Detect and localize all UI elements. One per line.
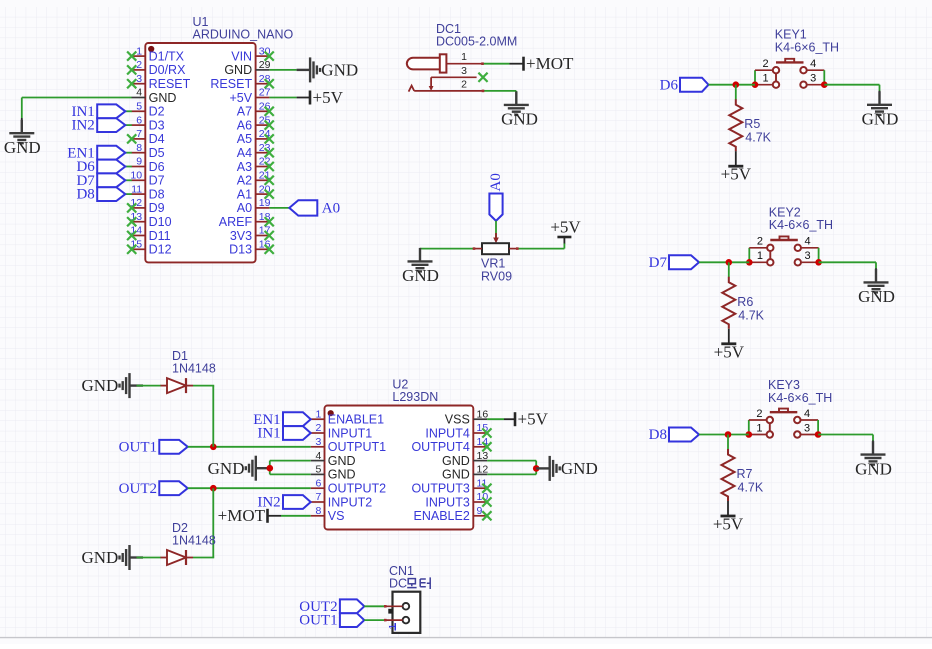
svg-text:OUTPUT4: OUTPUT4 — [411, 440, 469, 454]
svg-text:D1/TX: D1/TX — [149, 49, 185, 63]
wire A0 to VR1 wiper — [495, 221, 497, 239]
svg-text:1: 1 — [756, 422, 762, 434]
svg-text:ENABLE1: ENABLE1 — [328, 413, 384, 427]
wire U1 pin4 to GND — [22, 98, 132, 119]
ground GND (D2) — [81, 545, 143, 570]
svg-text:VS: VS — [328, 509, 345, 523]
svg-text:A2: A2 — [237, 174, 252, 188]
diode D2 1N4148 — [161, 521, 216, 565]
svg-text:OUTPUT3: OUTPUT3 — [411, 482, 469, 496]
U2 L293DN pin 12 GND — [442, 464, 488, 482]
port OUT1 (U2 pin3) — [119, 439, 188, 455]
IC U1 ARDUINO_NANO body — [145, 15, 293, 262]
svg-text:R6: R6 — [737, 295, 753, 309]
wire KEY3 to GND — [818, 435, 873, 442]
port D6 (U1 pin 9) — [76, 159, 131, 175]
port IN2 (U2 pin 7) — [257, 495, 310, 511]
svg-text:12: 12 — [477, 464, 489, 476]
svg-text:D6: D6 — [660, 77, 679, 93]
junction node OUT1 — [210, 444, 217, 451]
svg-text:GND: GND — [321, 61, 358, 80]
ground GND (KEY2) — [858, 268, 895, 306]
svg-text:K4-6×6_TH: K4-6×6_TH — [769, 218, 833, 232]
port D8 (KEY3) — [649, 427, 699, 443]
svg-text:A3: A3 — [237, 160, 252, 174]
U1 ARDUINO_NANO pin 6 D3 — [132, 114, 165, 132]
port D7 (KEY2) — [649, 255, 699, 271]
svg-text:4.7K: 4.7K — [738, 481, 764, 495]
U1 ARDUINO_NANO pin 1 D1/TX — [127, 45, 185, 63]
U1 ARDUINO_NANO pin 24 A5 — [237, 128, 274, 146]
ground GND (KEY3) — [855, 441, 892, 479]
wire U2 pin16 to +5V — [487, 418, 504, 420]
svg-text:OUT1: OUT1 — [299, 613, 337, 629]
svg-text:1: 1 — [387, 624, 399, 630]
svg-text:1: 1 — [461, 51, 467, 63]
port IN2 (U1 pin 6) — [71, 118, 131, 134]
svg-text:27: 27 — [259, 87, 271, 99]
wire D2 cathode — [193, 557, 214, 559]
U1 ARDUINO_NANO pin 13 D10 — [127, 211, 171, 229]
svg-text:D13: D13 — [229, 243, 252, 257]
svg-text:VR1: VR1 — [481, 257, 505, 271]
svg-text:GND: GND — [501, 110, 538, 129]
U2 L293DN pin 10 INPUT3 — [425, 491, 491, 509]
ground GND (KEY1) — [862, 91, 899, 129]
svg-text:OUTPUT2: OUTPUT2 — [328, 482, 386, 496]
junction node U2 GND left — [267, 465, 274, 472]
svg-text:13: 13 — [477, 450, 489, 462]
wire GND to D2 anode — [137, 557, 162, 559]
connector CN1 DC motor — [387, 564, 420, 633]
svg-text:RESET: RESET — [210, 77, 252, 91]
svg-text:3V3: 3V3 — [230, 229, 252, 243]
power flag +5V (U1 pin27) — [297, 88, 344, 107]
wire OUT2 to CN1 — [364, 605, 385, 607]
U2 L293DN pin 1 ENABLE1 — [311, 408, 384, 426]
svg-text:D9: D9 — [149, 201, 165, 215]
sheet border bottom — [0, 637, 932, 639]
svg-text:GND: GND — [208, 459, 245, 478]
svg-text:A1: A1 — [237, 187, 252, 201]
svg-text:D11: D11 — [149, 229, 171, 243]
svg-text:A0: A0 — [322, 201, 340, 217]
resistor R5 4.7K — [721, 85, 772, 184]
U2 L293DN pin 9 ENABLE2 — [414, 505, 492, 523]
wire DC1 pin1 to +MOT — [483, 63, 510, 65]
junction node D6/R — [733, 81, 740, 88]
junction node U2 GND right — [533, 465, 540, 472]
svg-text:K4-6×6_TH: K4-6×6_TH — [768, 391, 832, 405]
svg-text:8: 8 — [136, 142, 142, 154]
svg-text:VIN: VIN — [231, 49, 252, 63]
port EN1 (U2 pin 1) — [253, 412, 311, 428]
svg-text:11: 11 — [131, 183, 142, 195]
U2 L293DN pin 8 VS — [311, 505, 345, 523]
svg-text:GND: GND — [862, 110, 899, 129]
port IN1 (U1 pin 5) — [71, 104, 131, 120]
svg-text:INPUT1: INPUT1 — [328, 426, 373, 440]
svg-text:D8: D8 — [149, 187, 165, 201]
wire D8 to KEY3 — [699, 434, 749, 436]
wire D6 to KEY1 — [709, 84, 756, 86]
wire VR1 right to +5V — [517, 243, 564, 249]
U2 L293DN pin 4 GND — [311, 450, 356, 468]
wire U1 pin27 to +5V — [269, 97, 296, 99]
svg-text:GND: GND — [561, 459, 598, 478]
U1 ARDUINO_NANO pin 10 D7 — [130, 170, 164, 188]
power flag +MOT (DC1) — [510, 54, 574, 73]
svg-text:+MOT: +MOT — [218, 506, 266, 525]
svg-text:OUT1: OUT1 — [119, 439, 157, 455]
U1 ARDUINO_NANO pin 7 D4 — [127, 128, 165, 146]
svg-text:INPUT2: INPUT2 — [328, 495, 373, 509]
wire KEY2 to GND — [819, 262, 876, 269]
svg-text:4: 4 — [315, 450, 321, 462]
DC1 pin 2 — [414, 78, 483, 91]
port OUT2 (CN1) — [299, 599, 364, 615]
ground GND (DC1) — [501, 91, 538, 128]
CN1 value DC motor (Korean) — [389, 577, 430, 591]
U1 ARDUINO_NANO pin 30 VIN — [231, 45, 274, 63]
junction node D7/R — [726, 259, 733, 266]
svg-text:RV09: RV09 — [481, 270, 512, 284]
svg-text:29: 29 — [259, 59, 271, 71]
svg-text:GND: GND — [858, 287, 895, 306]
ground GND (U2 pins 13,12) — [536, 456, 598, 481]
wire D7 to KEY2 — [699, 261, 749, 263]
svg-text:OUTPUT1: OUTPUT1 — [328, 440, 386, 454]
resistor R7 4.7K — [713, 435, 764, 534]
svg-text:D4: D4 — [149, 132, 165, 146]
svg-text:2: 2 — [757, 236, 763, 248]
svg-text:GND: GND — [81, 548, 118, 567]
svg-text:L293DN: L293DN — [392, 390, 438, 404]
wire GND to D1 anode — [137, 385, 162, 387]
svg-text:GND: GND — [149, 91, 177, 105]
svg-text:GND: GND — [81, 376, 118, 395]
svg-text:K4-6×6_TH: K4-6×6_TH — [775, 40, 839, 54]
U1 ARDUINO_NANO pin 23 A4 — [237, 142, 274, 160]
svg-text:D12: D12 — [149, 243, 172, 257]
U2 L293DN pin 16 VSS — [445, 408, 489, 426]
U1 ARDUINO_NANO pin 16 D13 — [229, 239, 274, 257]
svg-text:D8: D8 — [649, 427, 667, 443]
port A0 (U1 pin19) — [289, 200, 340, 216]
svg-text:19: 19 — [259, 197, 271, 209]
svg-text:INPUT4: INPUT4 — [425, 426, 470, 440]
svg-text:GND: GND — [328, 454, 356, 468]
svg-text:+MOT: +MOT — [526, 54, 574, 73]
svg-text:+5V: +5V — [550, 218, 581, 237]
svg-text:+5V: +5V — [518, 410, 549, 429]
U1 ARDUINO_NANO pin 27 +5V — [230, 87, 271, 105]
U1 ARDUINO_NANO pin 20 A1 — [237, 183, 274, 201]
U2 L293DN pin 15 INPUT4 — [425, 422, 491, 440]
connector DC1 DC005-2.0MM — [407, 22, 517, 92]
svg-text:OUT2: OUT2 — [119, 481, 157, 497]
svg-text:4: 4 — [804, 408, 810, 420]
svg-text:GND: GND — [442, 454, 470, 468]
svg-text:A4: A4 — [237, 146, 252, 160]
pushbutton KEY3 K4-6x6_TH — [746, 378, 833, 438]
wire U2 pins 13,12 to GND — [487, 461, 540, 475]
wire +MOT to U2 pin8 — [281, 515, 311, 517]
wire VR1 left to GND — [420, 249, 474, 253]
wire GND to U2 pins 4,5 — [270, 461, 311, 475]
wire OUT1 to CN1 — [364, 619, 385, 621]
diode D1 1N4148 — [161, 349, 216, 393]
U1 ARDUINO_NANO pin 5 D2 — [132, 101, 165, 119]
svg-text:4.7K: 4.7K — [745, 131, 771, 145]
potentiometer VR1 RV09 — [474, 233, 517, 284]
svg-text:1N4148: 1N4148 — [172, 533, 216, 547]
svg-text:D7: D7 — [649, 255, 668, 271]
svg-text:5: 5 — [136, 101, 142, 113]
port OUT1 (CN1) — [299, 613, 364, 629]
svg-text:10: 10 — [130, 170, 142, 182]
svg-text:1: 1 — [763, 73, 769, 85]
U1 ARDUINO_NANO pin 26 A7 — [237, 101, 274, 119]
svg-text:DC005-2.0MM: DC005-2.0MM — [436, 35, 517, 49]
power flag +5V (U2 VSS) — [504, 410, 549, 429]
port D8 (U1 pin 11) — [76, 187, 131, 203]
svg-text:1: 1 — [315, 408, 321, 420]
U1 ARDUINO_NANO pin 22 A3 — [237, 156, 274, 174]
svg-text:+5V: +5V — [714, 342, 745, 361]
ground GND (U2 pins 4,5) — [208, 456, 270, 481]
wire KEY1 to GND — [824, 85, 879, 92]
DC1 pin 3 (no connect) — [431, 65, 488, 82]
svg-text:3: 3 — [315, 436, 321, 448]
wire U1 pin29 to GND — [269, 69, 296, 71]
svg-text:3: 3 — [804, 422, 810, 434]
svg-text:D10: D10 — [149, 215, 172, 229]
svg-text:2: 2 — [756, 408, 762, 420]
svg-text:+5V: +5V — [721, 165, 752, 184]
svg-text:ENABLE2: ENABLE2 — [414, 509, 470, 523]
wire OUT1 to D1 — [212, 386, 214, 447]
U2 L293DN pin 11 OUTPUT3 — [411, 477, 491, 495]
svg-text:4: 4 — [810, 58, 816, 70]
svg-text:GND: GND — [442, 468, 470, 482]
port OUT2 (U2 pin6) — [119, 481, 188, 497]
svg-text:+5V: +5V — [313, 88, 344, 107]
U1 ARDUINO_NANO pin 25 A6 — [237, 114, 274, 132]
svg-text:DC: DC — [389, 577, 407, 591]
svg-text:3: 3 — [136, 73, 142, 85]
power flag +MOT (U2 VS) — [218, 506, 281, 525]
svg-text:R5: R5 — [744, 117, 760, 131]
svg-text:16: 16 — [477, 408, 489, 420]
CN1 pin stubs — [385, 606, 402, 620]
svg-text:A7: A7 — [237, 105, 252, 119]
junction node OUT2 — [210, 485, 217, 492]
svg-text:1: 1 — [757, 250, 763, 262]
DC1 pin 1 — [446, 51, 482, 64]
port IN1 (U2 pin 2) — [257, 426, 310, 442]
svg-text:8: 8 — [315, 505, 321, 517]
wire OUT2 to D2 — [212, 488, 214, 557]
svg-text:D6: D6 — [149, 160, 165, 174]
svg-text:GND: GND — [855, 459, 892, 478]
U1 ARDUINO_NANO pin 3 RESET — [127, 73, 191, 91]
IC U2 L293DN body — [325, 378, 474, 530]
svg-text:A5: A5 — [237, 132, 252, 146]
ground GND (U1 left) — [4, 118, 41, 157]
pushbutton KEY1 K4-6x6_TH — [752, 28, 839, 88]
svg-text:6: 6 — [315, 477, 321, 489]
svg-text:R7: R7 — [737, 467, 753, 481]
svg-text:3: 3 — [804, 250, 810, 262]
svg-text:+5V: +5V — [713, 515, 744, 534]
svg-text:2: 2 — [763, 58, 769, 70]
U1 ARDUINO_NANO pin 28 RESET — [210, 73, 273, 91]
wire U1 pin19 to A0 — [269, 207, 289, 209]
wire OUT1 to U2 pin3 — [188, 446, 311, 448]
svg-text:D3: D3 — [149, 118, 165, 132]
svg-text:D7: D7 — [149, 174, 165, 188]
svg-text:GND: GND — [328, 468, 356, 482]
svg-text:1N4148: 1N4148 — [172, 361, 216, 375]
svg-text:2: 2 — [461, 78, 467, 90]
svg-text:4: 4 — [804, 236, 810, 248]
port D7 (U1 pin 10) — [76, 173, 131, 189]
wire OUT2 to U2 pin6 — [188, 487, 311, 489]
svg-text:D5: D5 — [149, 146, 165, 160]
svg-text:VSS: VSS — [445, 413, 470, 427]
U1 ARDUINO_NANO pin 19 A0 — [237, 197, 271, 215]
svg-text:2: 2 — [315, 422, 321, 434]
svg-text:9: 9 — [477, 505, 483, 517]
svg-text:IN2: IN2 — [71, 118, 94, 134]
svg-text:D0/RX: D0/RX — [149, 63, 186, 77]
svg-text:1: 1 — [136, 45, 142, 57]
U1 ARDUINO_NANO pin 8 D5 — [132, 142, 165, 160]
svg-text:7: 7 — [315, 491, 321, 503]
U2 L293DN pin 7 INPUT2 — [311, 491, 373, 509]
pushbutton KEY2 K4-6x6_TH — [746, 205, 833, 265]
U1 ARDUINO_NANO pin 9 D6 — [132, 156, 165, 174]
U1 ARDUINO_NANO pin 14 D11 — [127, 225, 171, 243]
U1 ARDUINO_NANO pin 21 A2 — [237, 170, 274, 188]
ground GND (D1) — [81, 373, 143, 398]
U2 L293DN pin 6 OUTPUT2 — [311, 477, 386, 495]
svg-text:7: 7 — [136, 128, 142, 140]
U1 ARDUINO_NANO pin 17 3V3 — [230, 225, 274, 243]
svg-text:6: 6 — [136, 114, 142, 126]
svg-text:A6: A6 — [237, 118, 252, 132]
resistor R6 4.7K — [714, 262, 765, 361]
ground GND (U1 pin29) — [297, 57, 359, 82]
svg-text:5: 5 — [315, 464, 321, 476]
ground GND (VR1) — [402, 248, 439, 285]
svg-text:GND: GND — [402, 266, 439, 285]
wire D1 cathode — [193, 385, 214, 387]
U1 ARDUINO_NANO pin 12 D9 — [127, 197, 165, 215]
U1 ARDUINO_NANO pin 4 GND — [132, 87, 177, 105]
U1 ARDUINO_NANO pin 18 AREF — [219, 211, 274, 229]
svg-text:9: 9 — [136, 156, 142, 168]
svg-text:2: 2 — [136, 59, 142, 71]
U2 L293DN pin 13 GND — [442, 450, 488, 468]
svg-text:3: 3 — [461, 65, 467, 77]
power flag +5V (VR1) — [550, 218, 581, 244]
junction node D8/R — [725, 431, 732, 438]
svg-text:ARDUINO_NANO: ARDUINO_NANO — [193, 28, 294, 42]
U1 ARDUINO_NANO pin 29 GND — [224, 59, 270, 77]
svg-text:D2: D2 — [149, 105, 165, 119]
svg-text:4: 4 — [136, 87, 142, 99]
svg-text:A0: A0 — [488, 173, 504, 191]
svg-text:INPUT3: INPUT3 — [425, 495, 470, 509]
wire DC1 pin2 to GND — [483, 91, 516, 98]
U2 L293DN pin 2 INPUT1 — [311, 422, 373, 440]
svg-text:GND: GND — [224, 63, 252, 77]
svg-text:IN1: IN1 — [257, 426, 280, 442]
svg-text:D8: D8 — [76, 187, 94, 203]
svg-text:3: 3 — [810, 73, 816, 85]
svg-text:A0: A0 — [237, 201, 252, 215]
U2 L293DN pin 3 OUTPUT1 — [311, 436, 386, 454]
svg-text:AREF: AREF — [219, 215, 253, 229]
svg-text:+5V: +5V — [230, 91, 253, 105]
svg-text:4.7K: 4.7K — [738, 308, 764, 322]
port A0 (VR1 wiper) — [488, 173, 504, 221]
U2 L293DN pin 14 OUTPUT4 — [411, 436, 491, 454]
pin end ticks — [384, 62, 519, 621]
U1 ARDUINO_NANO pin 2 D0/RX — [127, 59, 186, 77]
svg-text:GND: GND — [4, 138, 41, 157]
port EN1 (U1 pin 8) — [67, 145, 132, 161]
port D6 (KEY1) — [660, 77, 709, 93]
U2 L293DN pin 5 GND — [311, 464, 356, 482]
U1 ARDUINO_NANO pin 11 D8 — [131, 183, 164, 201]
svg-text:RESET: RESET — [149, 77, 191, 91]
U1 ARDUINO_NANO pin 15 D12 — [127, 239, 171, 257]
